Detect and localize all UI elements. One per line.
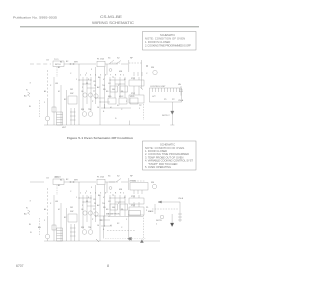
cavity dotted bottom [105, 238, 146, 240]
svg-text:TRIAC: TRIAC [130, 180, 137, 183]
pin ticks [134, 72, 142, 76]
svg-text:F1 15A: F1 15A [97, 58, 104, 61]
rail marker triangle [140, 240, 143, 243]
motor [88, 230, 93, 235]
box row HV capacitor [119, 98, 127, 104]
svg-text:2. COOKING TIME PROGRAMMED IS: 2. COOKING TIME PROGRAMMED IS OFF [145, 43, 191, 47]
svg-text:A1: A1 [44, 90, 46, 93]
svg-text:DR: DR [70, 207, 74, 209]
dashed sense wire [39, 218, 41, 236]
svg-text:1. DOOR IS CLOSED: 1. DOOR IS CLOSED [145, 40, 170, 44]
svg-text:8: 8 [107, 264, 109, 268]
svg-text:DR: DR [70, 89, 74, 91]
dense bus verticals [78, 64, 80, 125]
motor M6 [88, 112, 93, 117]
svg-text:INTLK: INTLK [55, 64, 62, 66]
wire L1 lead solid [30, 181, 44, 183]
svg-text:10: 10 [97, 225, 99, 227]
texture labels bottom schematic [44, 179, 127, 231]
svg-text:2: 2 [82, 87, 83, 89]
texture labels top schematic [44, 61, 127, 113]
HV transformer lattice [57, 112, 63, 125]
svg-text:AC: AC [24, 95, 27, 98]
svg-text:CN-A: CN-A [178, 99, 184, 102]
svg-text:6707: 6707 [16, 264, 24, 268]
box row upper A [110, 86, 118, 92]
svg-text:A1: A1 [58, 184, 60, 187]
flow arrowhead [128, 237, 132, 240]
diode D1 [171, 111, 174, 115]
triac box [130, 183, 148, 191]
svg-text:2: 2 [86, 191, 87, 193]
note box 1 text [145, 33, 191, 47]
thermal cutout TCO1 [53, 179, 64, 185]
pilot lamp [160, 215, 164, 219]
fan motor M1 [153, 70, 157, 74]
note box 2 text [145, 143, 193, 169]
vertical bus x61 [60, 85, 62, 125]
svg-text:WIRING SCHEMATIC: WIRING SCHEMATIC [92, 21, 134, 25]
relay bus verticals [134, 195, 139, 207]
svg-text:FM: FM [151, 67, 154, 69]
relay contact circle [109, 187, 112, 190]
box row upper A [110, 204, 118, 210]
svg-text:FM: FM [151, 182, 154, 184]
svg-text:3: 3 [91, 187, 92, 189]
junction dots [78, 197, 120, 226]
svg-text:WH: WH [74, 62, 78, 64]
svg-text:CO: CO [46, 60, 50, 62]
svg-text:LM: LM [55, 201, 58, 203]
switch box left [68, 96, 77, 104]
wire TCO1 to F1 [64, 181, 96, 183]
svg-text:K2: K2 [117, 223, 119, 225]
oven cavity left edge [103, 216, 105, 239]
svg-text:HVC: HVC [119, 96, 124, 98]
svg-text:A1: A1 [44, 208, 46, 211]
fan motor M5 [82, 112, 87, 117]
junction dot [146, 65, 147, 66]
monitor switch S2 [116, 61, 121, 65]
vertical bus x54 [53, 77, 55, 125]
bottom rail [44, 240, 160, 242]
svg-text:B2: B2 [64, 99, 66, 101]
turntable motor [45, 234, 50, 239]
lamp [88, 211, 92, 215]
svg-text:NOTE: NOTE [156, 220, 162, 222]
svg-text:LM: LM [55, 83, 58, 85]
relay RY2 [129, 95, 144, 103]
sense vertical [154, 204, 156, 214]
svg-text:K2: K2 [117, 105, 119, 107]
branch wire y226 [101, 225, 112, 227]
relay contact circle [109, 69, 112, 72]
svg-text:1: 1 [76, 79, 77, 81]
left thermostat symbol [28, 92, 31, 97]
bus tie under boxes [108, 216, 143, 218]
svg-text:MAGNETRON: MAGNETRON [106, 213, 120, 216]
vertical bus x61 [60, 203, 62, 241]
small box right group [129, 211, 141, 216]
turntable motor M3 [45, 116, 50, 121]
dashed feedback [152, 208, 178, 210]
vertical bus x54 [53, 195, 55, 241]
svg-text:3: 3 [91, 69, 92, 71]
HV transformer lattice [57, 228, 63, 241]
magnetron drop [171, 214, 173, 223]
svg-text:B2: B2 [66, 61, 68, 63]
vertical bus x66.5 [66, 90, 68, 125]
svg-text:Figure 5-1 Oven Schematic-Off: Figure 5-1 Oven Schematic-Off Condition [67, 136, 133, 140]
svg-text:AC: AC [24, 213, 27, 216]
stirrer motor [94, 212, 98, 216]
control unit connector comb [150, 88, 182, 102]
svg-text:SW: SW [70, 93, 73, 95]
box row upper B [120, 86, 128, 92]
svg-text:W: W [94, 85, 96, 87]
magnetron triangle [170, 223, 174, 227]
svg-text:CS-M1-BE: CS-M1-BE [100, 15, 123, 19]
tie wires [79, 80, 125, 102]
wire L1 lead dashed [30, 63, 51, 65]
svg-text:MG: MG [108, 96, 112, 98]
svg-text:WH: WH [74, 180, 78, 182]
svg-text:TCO: TCO [54, 59, 59, 61]
bottom schematic labels [24, 176, 184, 235]
svg-text:1: 1 [126, 219, 127, 221]
svg-text:NOTE: CONDITION OF OVEN: NOTE: CONDITION OF OVEN [145, 36, 185, 40]
svg-text:B2: B2 [64, 217, 66, 219]
right drop wire [179, 202, 181, 222]
svg-text:TH: TH [102, 203, 105, 205]
svg-text:TH: TH [102, 85, 105, 87]
vertical bus x47.5 [47, 188, 49, 216]
oven lamp [83, 211, 87, 215]
svg-text:W: W [86, 83, 88, 85]
vertical bus x66.5 [66, 208, 68, 241]
stirrer motor M4 [94, 94, 98, 98]
bottom rail [44, 124, 160, 126]
svg-text:MAIN: MAIN [148, 210, 154, 213]
svg-text:T1: T1 [112, 77, 114, 79]
svg-text:FM: FM [81, 227, 84, 229]
box row upper B [120, 204, 128, 210]
dashed sense x143.5 [143, 104, 145, 120]
branch wire y108 [101, 107, 131, 109]
svg-text:Publication No. 5995-0035: Publication No. 5995-0035 [13, 15, 57, 19]
svg-text:W: W [94, 203, 96, 205]
relay RY2 [129, 207, 144, 215]
schematic note box 1 [143, 32, 197, 51]
svg-text:F1 15A: F1 15A [97, 176, 104, 179]
svg-text:CONTROL UNIT: CONTROL UNIT [150, 86, 166, 88]
box row HV diode [130, 98, 138, 104]
svg-text:3: 3 [88, 197, 89, 199]
right ticks [178, 214, 182, 220]
cavity right dashed edge [143, 215, 145, 240]
right column capacitor [179, 86, 183, 96]
svg-text:TM: TM [88, 227, 91, 229]
svg-text:1: 1 [126, 101, 127, 103]
wire F1 to interlock [105, 63, 118, 65]
top schematic labels [24, 58, 184, 130]
svg-text:AH: AH [38, 226, 41, 229]
svg-text:2: 2 [86, 73, 87, 75]
svg-text:B2: B2 [66, 179, 68, 181]
left thermostat symbol [28, 210, 31, 215]
svg-text:INTLK: INTLK [55, 177, 62, 179]
rail tick [129, 237, 131, 241]
connector terminals [70, 63, 71, 64]
pin ticks [134, 190, 142, 194]
header rule [20, 26, 199, 28]
cavity dashed mid line [107, 230, 135, 232]
svg-text:5. OVEN OPERATING: 5. OVEN OPERATING [145, 165, 171, 169]
svg-text:A1: A1 [58, 66, 60, 69]
arrowhead left [158, 201, 162, 203]
oven lamp L2 [83, 93, 87, 97]
monitor switch S2 [116, 179, 121, 183]
connector terminals [70, 181, 71, 182]
rail tick [129, 121, 131, 126]
svg-text:NOTE 2: NOTE 2 [162, 115, 170, 117]
arrow feed wire [158, 201, 180, 203]
svg-text:CN-B: CN-B [178, 198, 184, 200]
svg-text:10: 10 [97, 107, 99, 109]
lamp L3 [88, 93, 92, 97]
fan motor [82, 230, 87, 235]
switch box left [68, 214, 77, 222]
svg-text:CO: CO [46, 178, 50, 180]
thermal cutout TCO1 [53, 61, 64, 67]
box row magnetron filter [108, 98, 116, 104]
dashed link [110, 62, 120, 64]
svg-text:T1: T1 [112, 195, 114, 197]
svg-text:HVD: HVD [130, 96, 135, 98]
TCO drop dashed [56, 185, 58, 195]
relay bus verticals [134, 77, 139, 95]
component on x54 [52, 107, 56, 112]
component on x54 [52, 225, 56, 230]
node vertical [128, 60, 130, 72]
svg-text:W: W [86, 201, 88, 203]
svg-text:2: 2 [82, 205, 83, 207]
dashed sense wire [39, 100, 41, 118]
svg-text:SW: SW [70, 211, 73, 213]
schematic note box 2 [143, 141, 197, 170]
junction dots [78, 79, 120, 108]
relay RY1 [129, 198, 144, 204]
svg-text:TM: TM [88, 109, 91, 111]
dense bus verticals [78, 182, 80, 241]
svg-text:3: 3 [88, 79, 89, 81]
HV transformer hatches [70, 224, 72, 241]
primary interlock switch S1 [106, 64, 108, 75]
wire right group vertical [128, 214, 130, 240]
dashed wire right [129, 180, 145, 182]
primary interlock closed S1 [106, 182, 108, 193]
wire F1 on [105, 181, 118, 183]
dashed wire to fan [129, 62, 142, 64]
node vertical [128, 178, 130, 190]
fuse F1 [97, 179, 105, 185]
HV transformer T1 hatches [70, 108, 72, 125]
wire TCO1 to F1 [64, 63, 96, 65]
relay RY1 [129, 80, 144, 86]
terminal tick [170, 124, 174, 126]
fan motor M1 [152, 184, 156, 188]
svg-text:HVT: HVT [62, 127, 67, 129]
svg-text:FM: FM [81, 109, 84, 111]
comb drop wire [171, 102, 173, 125]
fuse F1 [97, 61, 105, 67]
svg-text:1: 1 [76, 197, 77, 199]
vertical bus x47.5 turntable [47, 70, 49, 98]
tie wires [79, 198, 125, 220]
TCO drop dashed [56, 67, 58, 77]
